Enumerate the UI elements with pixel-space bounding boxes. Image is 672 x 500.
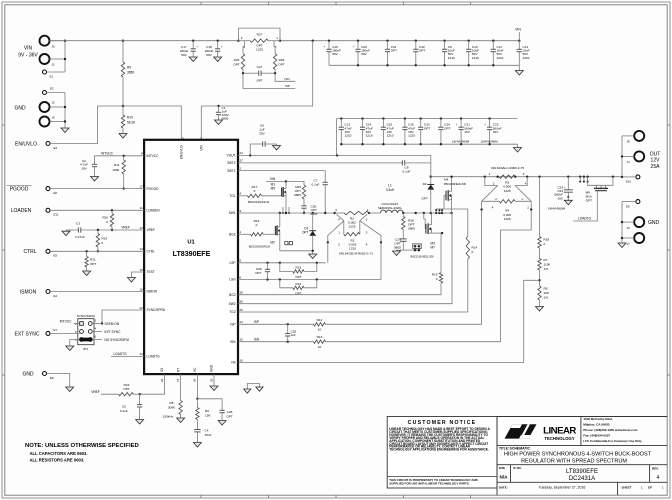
svg-text:ISP: ISP (285, 84, 290, 88)
svg-text:SS: SS (160, 368, 164, 372)
svg-text:D2: D2 (423, 182, 427, 186)
svg-text:LSN: LSN (229, 278, 236, 282)
svg-text:16V: 16V (493, 130, 499, 134)
resistor R26 (243, 41, 245, 54)
connector E7 EXT SYNC (46, 331, 50, 335)
svg-text:1210: 1210 (472, 56, 479, 60)
svg-text:SUPPLIED FOR USE WITH LINEAR T: SUPPLIED FOR USE WITH LINEAR TECHNOLOGY … (389, 482, 469, 486)
svg-text:16HVH560M: 16HVH560M (548, 206, 566, 210)
ground C6 (276, 144, 278, 146)
svg-text:365K: 365K (127, 71, 135, 75)
svg-text:OPT: OPT (123, 387, 129, 391)
svg-text:TEST: TEST (147, 270, 155, 274)
connector E10 (636, 175, 640, 179)
svg-text:J5: J5 (52, 45, 55, 49)
resistor R19 (97, 229, 99, 231)
svg-text:SYNC/SSFM: SYNC/SSFM (77, 314, 95, 318)
resistor R8 (538, 286, 541, 300)
capacitor C33 output bank (420, 117, 422, 119)
resistor R15 (439, 273, 442, 283)
resistor R6 (196, 399, 198, 408)
ground pair below IC (247, 384, 259, 390)
connector E5 CTRL (46, 249, 50, 253)
svg-text:25: 25 (240, 308, 244, 312)
svg-text:BG2: BG2 (229, 293, 236, 297)
connector J6 (40, 117, 50, 127)
net label LOADTG at M9 gate (573, 191, 597, 221)
svg-text:13: 13 (139, 247, 143, 251)
svg-text:15nF: 15nF (205, 433, 212, 437)
capacitor C23 C24 output (567, 176, 569, 178)
svg-text:R21: R21 (90, 258, 96, 262)
svg-text:15: 15 (240, 338, 244, 342)
svg-text:OPT: OPT (391, 49, 397, 53)
kelvin taps to ISP/ISN (481, 210, 483, 325)
svg-text:TECHNOLOGY: TECHNOLOGY (544, 436, 574, 441)
wire top cap bank ground rail (329, 64, 519, 66)
svg-text:B5C009NE2LS5I: B5C009NE2LS5I (444, 182, 466, 186)
svg-text:R14: R14 (472, 246, 478, 250)
resistor R20 (111, 209, 113, 211)
svg-text:56.2K: 56.2K (127, 121, 136, 125)
wire LOADEN (50, 209, 144, 211)
wire mid cap bank rails (337, 118, 518, 120)
svg-text:R13: R13 (317, 335, 323, 339)
svg-text:17: 17 (139, 184, 143, 188)
svg-text:0805: 0805 (408, 226, 415, 230)
svg-text:GND: GND (210, 364, 214, 372)
svg-text:NOTE: UNLESS OTHERWISE SPECIFI: NOTE: UNLESS OTHERWISE SPECIFIED (25, 443, 139, 449)
ground E8 (66, 387, 74, 392)
wire VOUT pin 24 (238, 154, 431, 156)
svg-text:EN/UVLO: EN/UVLO (180, 145, 184, 160)
svg-text:0: 0 (102, 241, 104, 245)
svg-text:OUT: OUT (650, 151, 661, 157)
customer notice box (387, 417, 497, 489)
svg-text:JP1: JP1 (83, 347, 89, 351)
svg-text:1210: 1210 (387, 134, 394, 138)
svg-text:SIZE: SIZE (499, 466, 505, 470)
svg-text:0: 0 (106, 220, 108, 224)
svg-text:OPT: OPT (424, 126, 430, 130)
svg-text:R18: R18 (544, 238, 550, 242)
svg-text:R9: R9 (127, 66, 131, 70)
svg-text:50V: 50V (361, 52, 367, 56)
jumper JP1 SYNC/SSFM (78, 319, 94, 345)
capacitor C34 output bank (440, 117, 442, 119)
svg-text:J3: J3 (627, 226, 630, 230)
wire VOUT drop to output rail (430, 155, 432, 176)
svg-text:25A: 25A (651, 164, 661, 170)
svg-text:J4: J4 (627, 160, 630, 164)
svg-text:E7: E7 (54, 328, 58, 332)
svg-text:E3: E3 (54, 146, 58, 150)
svg-text:VREF: VREF (147, 228, 156, 232)
svg-text:INTVCC: INTVCC (147, 154, 160, 158)
svg-text:BG1: BG1 (229, 233, 236, 237)
wire EXT SYNC to JP1 pin3 (50, 332, 80, 334)
capacitor C5 (139, 394, 141, 404)
svg-text:19: 19 (240, 358, 244, 362)
wire FB pin 19 (238, 280, 540, 362)
svg-text:HIGH POWER SYNCHRONOUS 4-SWITC: HIGH POWER SYNCHRONOUS 4-SWITCH BUCK-BOO… (504, 451, 652, 457)
svg-text:KRL6432E-M-R002-G-T1: KRL6432E-M-R002-G-T1 (339, 252, 373, 256)
svg-text:VREF: VREF (91, 390, 100, 394)
svg-text:REGULATOR WITH SPREAD SPECTRUM: REGULATOR WITH SPREAD SPECTRUM (521, 458, 627, 464)
svg-text:J2: J2 (52, 101, 55, 105)
svg-text:E6: E6 (54, 191, 58, 195)
svg-text:OPT: OPT (586, 199, 592, 203)
svg-text:1210: 1210 (366, 134, 373, 138)
svg-text:50V: 50V (206, 53, 212, 57)
svg-text:Tuesday, September 27, 2016: Tuesday, September 27, 2016 (539, 486, 586, 490)
svg-text:R12: R12 (317, 318, 323, 322)
wire BST1 pin 2 to C7 (238, 171, 325, 183)
wire VOUT rail (431, 176, 620, 178)
svg-text:ISMON: ISMON (147, 290, 158, 294)
connector E6 PGOOD (46, 187, 50, 191)
svg-text:SW2: SW2 (229, 302, 236, 306)
svg-text:150kHz: 150kHz (163, 415, 174, 419)
M4 gate comb (435, 209, 437, 213)
capacitor C26 (197, 399, 222, 411)
svg-text:VOUT: VOUT (227, 154, 236, 158)
svg-text:BST1: BST1 (228, 169, 236, 173)
JP1 pin6 stub NO SYNC/SSFM (92, 339, 102, 341)
svg-text:SHEET: SHEET (622, 486, 632, 490)
svg-text:OPT: OPT (90, 262, 96, 266)
capacitor C15 output bank (382, 117, 384, 119)
svg-text:R10: R10 (127, 116, 133, 120)
wire ISP pin 14 (238, 323, 314, 325)
svg-text:INTVCC: INTVCC (101, 151, 114, 155)
svg-text:EXT SYNC: EXT SYNC (105, 330, 122, 334)
wire output bus (622, 135, 634, 137)
svg-text:10: 10 (318, 328, 322, 332)
svg-text:E2: E2 (50, 87, 54, 91)
ground R5 (177, 418, 185, 423)
svg-text:TG2: TG2 (229, 310, 235, 314)
Linear Technology logo (505, 424, 537, 438)
svg-text:Phone: (408)432-1900 www.lin: Phone: (408)432-1900 www.linear.com (583, 428, 637, 432)
resistor R25 (274, 41, 275, 54)
svg-text:J8: J8 (627, 140, 630, 144)
inductor L1 (369, 212, 380, 214)
svg-text:E9: E9 (626, 204, 630, 208)
connector J7 (634, 233, 644, 243)
svg-text:0: 0 (544, 242, 546, 246)
svg-text:E11: E11 (54, 213, 59, 217)
ground output (618, 243, 626, 248)
svg-text:E1: E1 (50, 75, 54, 79)
resistor R27 with bypass loop (237, 40, 239, 42)
capacitor C28 (267, 263, 269, 270)
sense resistor R2 on SW rail (334, 212, 336, 214)
resistor R18 divider (538, 176, 540, 178)
svg-text:E5: E5 (54, 254, 58, 258)
svg-text:0805: 0805 (311, 212, 318, 216)
svg-text:M7: M7 (431, 246, 436, 250)
svg-text:OF: OF (648, 486, 652, 490)
resistor R22 (133, 393, 139, 395)
resistor R13 (314, 340, 326, 343)
svg-text:LOADTG: LOADTG (147, 355, 161, 359)
svg-text:M5: M5 (271, 187, 276, 191)
svg-text:LOADTG: LOADTG (113, 352, 127, 356)
svg-text:J6: J6 (52, 116, 55, 120)
svg-text:E10: E10 (626, 180, 632, 184)
resistor R10 (122, 106, 124, 115)
svg-text:R11: R11 (114, 163, 120, 167)
capacitor C27 (243, 72, 259, 74)
customer notice separator (387, 475, 497, 477)
svg-text:OPT: OPT (255, 271, 261, 275)
transistor M2 (263, 233, 275, 235)
svg-text:VIN: VIN (270, 177, 276, 181)
svg-text:26: 26 (240, 300, 244, 304)
svg-text:GND: GND (22, 371, 34, 377)
JP1 pin2 stub SSFM ON (92, 323, 102, 325)
resistor R23 (280, 263, 293, 272)
svg-text:23: 23 (139, 352, 143, 356)
connector J3 (634, 217, 644, 227)
svg-text:9V - 36V: 9V - 36V (18, 53, 38, 59)
ground C29 (397, 249, 404, 252)
svg-text:1225: 1225 (504, 217, 511, 221)
svg-text:R26: R26 (234, 58, 240, 62)
net label ISP stub (243, 73, 295, 88)
svg-text:0: 0 (436, 277, 438, 281)
ground C23/C24 (567, 197, 569, 200)
M1 paralleling marks (282, 207, 284, 213)
connector E9 (636, 200, 640, 204)
capacitor C17 (192, 40, 194, 42)
svg-text:ISN: ISN (230, 340, 236, 344)
svg-text:Milpitas, CA 95035: Milpitas, CA 95035 (583, 422, 610, 426)
title block borders (496, 417, 498, 496)
capacitor C4 (194, 429, 200, 431)
svg-text:OPT: OPT (422, 197, 428, 201)
svg-text:20: 20 (193, 379, 197, 383)
wire LSN pin 6 (238, 279, 381, 281)
svg-text:CUSTOMER NOTICE: CUSTOMER NOTICE (408, 420, 477, 426)
svg-text:BST2: BST2 (228, 161, 236, 165)
ground JP1 (66, 346, 74, 351)
wire ISMON (50, 291, 144, 293)
resistor R21 (85, 250, 87, 252)
svg-text:22: 22 (139, 306, 143, 310)
svg-text:KRL6432E-C-R006-F-T5: KRL6432E-C-R006-F-T5 (491, 166, 525, 170)
capacitor C22 output bank (488, 117, 490, 119)
svg-text:16V: 16V (557, 196, 563, 200)
svg-text:VREF: VREF (121, 225, 130, 229)
svg-text:1%: 1% (544, 295, 549, 299)
svg-text:LOADEN: LOADEN (11, 208, 32, 214)
svg-text:0805: 0805 (222, 117, 229, 121)
svg-text:LTC Confidential-For Customer: LTC Confidential-For Customer Use Only (583, 439, 642, 443)
ground R8 (536, 307, 544, 312)
svg-text:LT8390EFE: LT8390EFE (173, 250, 211, 258)
capacitor C18 (217, 40, 219, 42)
wire E8 to ground (47, 374, 70, 388)
resistor R12 (314, 323, 326, 326)
svg-text:24: 24 (240, 151, 244, 155)
capacitor C21 output bank (460, 117, 462, 119)
M3 paralleling marks (403, 249, 419, 251)
svg-text:110K: 110K (544, 263, 552, 267)
svg-text:27: 27 (240, 159, 244, 163)
transistor M3 M7 (424, 213, 425, 229)
svg-text:1210: 1210 (448, 56, 455, 60)
svg-text:C27: C27 (257, 65, 263, 69)
svg-text:3.3uH: 3.3uH (386, 188, 395, 192)
wire PGOOD (50, 188, 144, 190)
svg-text:E8: E8 (50, 376, 54, 380)
wire output gnd bus (622, 201, 636, 203)
svg-text:VIN: VIN (200, 145, 204, 151)
svg-text:Fax: (408)434-0507: Fax: (408)434-0507 (583, 433, 610, 437)
diode D1 (312, 213, 314, 231)
wire SW2 rail (403, 212, 452, 214)
resistor R24 (280, 280, 293, 288)
ground mid cap bank (517, 144, 519, 147)
svg-text:0.47uF: 0.47uF (75, 235, 85, 239)
transistor M1 M5 (262, 195, 282, 197)
svg-text:SW1: SW1 (229, 211, 236, 215)
svg-text:0: 0 (472, 250, 474, 254)
svg-text:REV.: REV. (652, 467, 659, 471)
svg-text:R25: R25 (279, 58, 285, 62)
ground C3 (62, 231, 70, 236)
svg-text:C26: C26 (227, 410, 233, 414)
ground GND pin 29 (213, 374, 215, 386)
M2 paralleling marks (285, 242, 288, 245)
svg-text:16HVH560M: 16HVH560M (481, 139, 499, 143)
svg-text:OPT: OPT (226, 415, 232, 419)
capacitor C3 and VREF wire (66, 229, 78, 231)
svg-text:R8: R8 (544, 286, 548, 290)
connector E11 LOADEN (46, 208, 50, 212)
svg-text:IC NO.: IC NO. (513, 466, 522, 470)
resistor R11 (123, 155, 125, 157)
svg-text:1%: 1% (544, 267, 549, 271)
svg-text:1210: 1210 (497, 56, 504, 60)
wire SW2 pin 26 (238, 213, 452, 304)
svg-text:GND: GND (648, 220, 660, 226)
resistor R7 (539, 248, 541, 259)
svg-text:50V: 50V (181, 53, 187, 57)
capacitor C9 (443, 40, 445, 42)
sense resistor R4 kelvin (482, 177, 498, 210)
wire VC pin (196, 374, 198, 399)
sense resistor R3 on VOUT rail (484, 176, 486, 178)
svg-text:M2: M2 (270, 240, 275, 244)
svg-text:1225: 1225 (504, 189, 511, 193)
wire EN/UVLO to divider and pin 9 (50, 106, 181, 144)
jumper JP1 shunt on pins 5-6 (79, 338, 92, 342)
ground C4 (193, 443, 201, 448)
svg-text:1uF: 1uF (291, 333, 296, 337)
wire TEST pin to ground (131, 272, 144, 278)
connector J1 (40, 54, 50, 64)
resistor R29 (286, 181, 304, 185)
svg-text:309K: 309K (168, 406, 176, 410)
svg-text:M4: M4 (444, 177, 449, 181)
svg-text:0: 0 (254, 189, 256, 193)
connector E2 (43, 91, 47, 95)
capacitor C6 (250, 144, 263, 155)
svg-text:OPT: OPT (444, 126, 450, 130)
svg-text:11: 11 (140, 206, 143, 210)
connector J2 (40, 102, 50, 112)
svg-text:12V: 12V (651, 158, 661, 164)
capacitor C12 (518, 40, 520, 42)
svg-text:R6: R6 (205, 409, 209, 413)
svg-text:1210: 1210 (408, 134, 415, 138)
connector J4 (634, 151, 644, 161)
svg-text:OPT: OPT (295, 275, 301, 279)
svg-text:R23: R23 (296, 266, 302, 270)
svg-text:0.1uF: 0.1uF (403, 170, 411, 174)
svg-text:LOADEN: LOADEN (147, 209, 161, 213)
wire VIN rail drop to pin 7 (312, 40, 314, 42)
svg-text:INTVCC: INTVCC (60, 319, 73, 323)
connector E8 GND (43, 372, 47, 376)
svg-text:0.1uF: 0.1uF (312, 183, 320, 187)
wire VIN rail (50, 40, 239, 42)
svg-text:ISN: ISN (254, 337, 260, 341)
capacitor C1 (217, 105, 219, 107)
net label ISN stub (275, 73, 295, 81)
svg-text:PGOOD: PGOOD (10, 187, 29, 193)
svg-text:SSFM ON: SSFM ON (105, 322, 120, 326)
connector E4 ISMON (46, 290, 50, 294)
resistor R9 (122, 41, 124, 62)
transistor M4 (444, 196, 446, 210)
wire SYNC/SPRD to JP1 (102, 310, 144, 324)
svg-text:EN/UVLO: EN/UVLO (15, 141, 37, 147)
resistor R28 snubber (402, 213, 404, 217)
wire SW1 rail (238, 212, 335, 214)
svg-text:50V: 50V (332, 52, 338, 56)
svg-text:SER2915L-332KL: SER2915L-332KL (378, 206, 403, 210)
capacitor C25 (287, 324, 289, 333)
capacitor C16 output bank (404, 117, 406, 119)
svg-text:4: 4 (657, 475, 660, 481)
svg-text:OPT: OPT (233, 63, 239, 67)
svg-text:ALL CAPACITORS ARE 0603.: ALL CAPACITORS ARE 0603. (30, 451, 88, 456)
capacitor C32 (415, 40, 417, 42)
ground TEST (127, 278, 135, 283)
svg-text:C5: C5 (122, 405, 126, 409)
svg-text:R5: R5 (170, 401, 174, 405)
svg-text:TITLE:: TITLE: (499, 447, 509, 451)
svg-text:ISN: ISN (284, 77, 289, 81)
resistor R17 on TG1 (238, 195, 248, 197)
svg-text:ISP: ISP (254, 320, 259, 324)
svg-text:10: 10 (318, 345, 322, 349)
capacitor C29 (400, 238, 407, 240)
svg-text:E4: E4 (54, 294, 58, 298)
transistor M9 M10 load switch (579, 176, 581, 178)
svg-text:OPT: OPT (278, 63, 284, 67)
net label INTVCC at pin 8 (95, 155, 145, 157)
wire LSP pin 5 (238, 262, 326, 264)
svg-text:0805: 0805 (294, 193, 301, 197)
wire BG2 pin 28 to R15 (238, 283, 441, 295)
capacitor C2 (94, 156, 96, 165)
svg-text:LSP: LSP (229, 261, 235, 265)
